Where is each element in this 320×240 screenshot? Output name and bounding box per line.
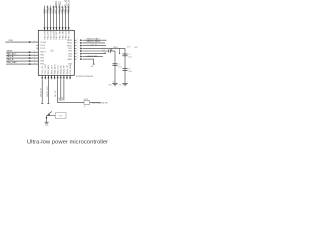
- svg-text:PB0_DAC: PB0_DAC: [7, 61, 17, 64]
- svg-text:OSC32_OUT: OSC32_OUT: [47, 85, 49, 97]
- svg-text:OSC_OUT: OSC_OUT: [45, 63, 47, 74]
- svg-text:WK_UP: WK_UP: [55, 90, 57, 97]
- svg-text:2(q): 2(q): [102, 48, 105, 50]
- svg-text:PB3: PB3: [68, 53, 72, 55]
- svg-text:2: 2: [34, 59, 35, 61]
- svg-text:OSC_IN: OSC_IN: [42, 66, 44, 74]
- svg-text:2: 2: [34, 56, 35, 58]
- svg-text:PB0: PB0: [40, 64, 44, 66]
- svg-text:PB5: PB5: [68, 56, 72, 58]
- svg-text:STM32L031K6U6: STM32L031K6U6: [76, 76, 94, 78]
- svg-text:WK_STATUS_P8: WK_STATUS_P8: [92, 101, 108, 104]
- svg-text:Ultra-low power microcontrolle: Ultra-low power microcontroller: [27, 140, 108, 146]
- svg-text:PA11_SP: PA11_SP: [63, 65, 66, 74]
- svg-text:2: 2: [34, 40, 35, 42]
- svg-text:2: 2: [34, 51, 35, 53]
- svg-text:PB4_TIM: PB4_TIM: [59, 30, 61, 39]
- svg-text:VDD: VDD: [113, 47, 118, 49]
- svg-text:C7: C7: [118, 64, 120, 66]
- svg-text:PB1_ADC: PB1_ADC: [47, 64, 50, 74]
- svg-text:1: 1: [77, 44, 78, 46]
- svg-text:PB4_TIM22: PB4_TIM22: [59, 1, 61, 14]
- svg-text:4u7: 4u7: [102, 50, 105, 52]
- svg-text:2: 2: [34, 62, 35, 64]
- svg-text:PB6_SCL: PB6_SCL: [65, 29, 67, 39]
- svg-text:PB7_SDA: PB7_SDA: [68, 29, 71, 39]
- svg-text:SWCLK_PA14: SWCLK_PA14: [87, 40, 101, 43]
- svg-text:(WK): (WK): [134, 47, 138, 49]
- svg-text:NRST: NRST: [40, 51, 46, 53]
- svg-text:1: 1: [77, 42, 78, 44]
- svg-text:PC15: PC15: [40, 48, 45, 50]
- svg-text:LSE: LSE: [103, 53, 106, 55]
- svg-text:PA6_M: PA6_M: [52, 6, 55, 14]
- svg-text:PA0_ADC: PA0_ADC: [7, 52, 17, 55]
- svg-text:PA8_MCO: PA8_MCO: [53, 64, 56, 74]
- svg-text:PA5_SCK: PA5_SCK: [49, 30, 52, 40]
- svg-text:PA7_MOS: PA7_MOS: [55, 29, 58, 39]
- svg-text:SB18: SB18: [84, 99, 88, 101]
- svg-text:C8: C8: [128, 68, 130, 70]
- svg-text:PA2: PA2: [43, 9, 46, 14]
- svg-text:1: 1: [77, 55, 78, 57]
- svg-text:PB7_SDA_USB1: PB7_SDA_USB1: [68, 0, 71, 14]
- svg-text:+VABAT_MB1: +VABAT_MB1: [86, 55, 97, 58]
- svg-text:C1: C1: [128, 54, 130, 56]
- svg-text:100n: 100n: [118, 67, 122, 69]
- svg-text:PB6_SCL_USB: PB6_SCL_USB: [65, 0, 67, 14]
- svg-text:PA5S: PA5S: [49, 7, 52, 13]
- svg-text:1: 1: [77, 50, 78, 52]
- svg-text:NRST: NRST: [7, 50, 14, 52]
- svg-text:PA1: PA1: [40, 57, 44, 60]
- svg-text:1: 1: [77, 58, 78, 60]
- svg-text:100n: 100n: [128, 71, 132, 73]
- svg-text:SWDIO_PA13: SWDIO_PA13: [87, 37, 101, 40]
- svg-text:PA1_A: PA1_A: [7, 55, 14, 58]
- svg-text:VBAT: VBAT: [67, 58, 73, 61]
- svg-text:2: 2: [34, 54, 35, 56]
- svg-text:PA3_U: PA3_U: [46, 6, 49, 14]
- svg-text:PB5_TIM: PB5_TIM: [62, 30, 64, 39]
- svg-text:VDDA: VDDA: [40, 41, 46, 44]
- svg-text:PA13: PA13: [67, 39, 72, 42]
- svg-text:PA2_USA: PA2_USA: [43, 30, 46, 40]
- svg-text:1: 1: [77, 47, 78, 49]
- svg-text:PA4_A: PA4_A: [7, 58, 14, 61]
- svg-text:VCP_TX: VCP_TX: [91, 44, 98, 46]
- svg-text:GND: GND: [45, 125, 50, 127]
- svg-text:PA9_TX2: PA9_TX2: [57, 64, 60, 74]
- svg-text:PA15: PA15: [67, 44, 72, 47]
- svg-text:1: 1: [77, 39, 78, 41]
- svg-text:100n: 100n: [128, 56, 132, 58]
- svg-text:PA12_SP: PA12_SP: [66, 65, 69, 74]
- svg-text:PA0: PA0: [40, 53, 44, 56]
- svg-text:PB5_T: PB5_T: [62, 6, 64, 14]
- svg-text:PB2_LPT: PB2_LPT: [51, 64, 53, 74]
- svg-text:VDD: VDD: [8, 40, 13, 42]
- svg-text:PA10_RX: PA10_RX: [60, 64, 63, 74]
- svg-text:PA7_MOSI1: PA7_MOSI1: [55, 0, 58, 13]
- svg-text:1: 1: [77, 52, 78, 54]
- svg-text:10: 10: [84, 106, 86, 108]
- svg-text:OSC32_IN: OSC32_IN: [41, 88, 43, 97]
- svg-text:PA3_USA: PA3_USA: [46, 30, 49, 40]
- svg-text:VSS_PAD: VSS_PAD: [69, 64, 72, 74]
- svg-text:PA6_MIS: PA6_MIS: [52, 30, 55, 39]
